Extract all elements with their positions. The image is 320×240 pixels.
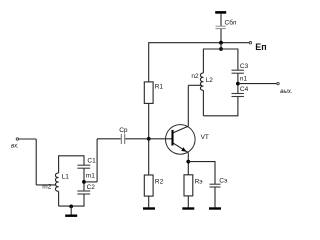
wire tank1 bottom xyxy=(59,205,84,207)
wire input to L1 tap (m2) xyxy=(19,139,57,185)
capacitor C2 xyxy=(77,184,95,194)
node (tank L2 top junction) xyxy=(219,47,223,51)
inductor L2 xyxy=(200,73,213,91)
ground (under Rэ) xyxy=(182,207,194,209)
node (tank1 bottom junction) xyxy=(69,205,73,209)
wire Сбл to Еп rail xyxy=(220,29,222,43)
resistor R1 xyxy=(144,82,163,104)
node (emitter junction) xyxy=(186,160,190,164)
svg-text:R2: R2 xyxy=(155,179,164,186)
output terminal вых. xyxy=(238,82,293,95)
capacitor Сэ xyxy=(210,178,228,187)
node n1 xyxy=(236,75,248,85)
wire rail corner down to R1 xyxy=(148,42,150,82)
svg-text:C2: C2 xyxy=(87,184,96,191)
wire collector up xyxy=(187,85,189,126)
wire C2 to tank1 bottom xyxy=(83,194,85,206)
input terminal вх. xyxy=(11,138,19,150)
resistor R2 xyxy=(144,175,163,196)
svg-text:Сэ: Сэ xyxy=(219,178,228,185)
wire rail to tank top xyxy=(220,43,222,49)
svg-text:n1: n1 xyxy=(240,75,248,82)
wire base node to transistor base xyxy=(149,138,172,140)
ground (top, above Cбл) xyxy=(215,12,226,26)
capacitor C3 xyxy=(232,63,249,73)
svg-text:C3: C3 xyxy=(240,63,249,70)
wire tank2 top xyxy=(203,48,238,50)
power rail Еп xyxy=(149,42,267,52)
svg-text:m1: m1 xyxy=(86,172,95,179)
wire C1 to node m1 xyxy=(83,169,85,191)
node (rail / Сбл junction) xyxy=(219,41,223,45)
wire tank1 right rail top segment xyxy=(83,155,85,165)
node m1 xyxy=(82,172,95,183)
wire collector tap to L2 (n2 tap) xyxy=(188,84,202,86)
wire Rэ to ground xyxy=(187,196,189,208)
ground (under input tank) xyxy=(65,214,77,216)
resistor Rэ xyxy=(184,175,203,196)
wire Сэ to ground xyxy=(214,187,216,207)
wire emitter down xyxy=(187,153,189,175)
svg-text:m2: m2 xyxy=(42,183,51,190)
ground (under Сэ) xyxy=(209,207,221,209)
wire C4 to tank2 bottom xyxy=(237,97,239,117)
wire tank1 left rail lower xyxy=(58,191,60,206)
wire down to Сэ xyxy=(214,161,216,184)
wire tank1 left rail upper xyxy=(58,155,60,173)
wire Ср to base node xyxy=(125,138,149,140)
svg-text:C4: C4 xyxy=(240,86,249,93)
wire R1 to base node xyxy=(148,103,150,175)
wire tank2 left rail upper xyxy=(202,49,204,73)
wire tank2 right rail top segment xyxy=(237,49,239,71)
svg-text:Еп: Еп xyxy=(255,42,266,52)
wire tank1 bottom to ground xyxy=(70,206,72,214)
svg-text:VT: VT xyxy=(201,134,209,141)
transistor VT xyxy=(166,125,209,155)
capacitor Сбл xyxy=(216,19,237,29)
wire m1 to Ср xyxy=(84,139,121,182)
wire R2 to ground xyxy=(148,196,150,207)
svg-text:вых.: вых. xyxy=(280,89,292,95)
capacitor C1 xyxy=(77,158,96,169)
wire tank2 bottom xyxy=(203,115,238,117)
node (base junction) xyxy=(147,137,151,141)
svg-text:R1: R1 xyxy=(155,83,164,90)
svg-text:вх.: вх. xyxy=(11,143,19,149)
svg-text:n2: n2 xyxy=(191,73,199,80)
wire tank1 top xyxy=(59,155,84,157)
capacitor Ср xyxy=(119,127,128,144)
svg-text:C1: C1 xyxy=(87,158,96,165)
ground (under R2) xyxy=(143,207,155,209)
wire C3 to node n1 xyxy=(237,74,239,94)
svg-text:Rэ: Rэ xyxy=(195,179,204,186)
svg-text:Сбл: Сбл xyxy=(225,19,237,27)
svg-text:L1: L1 xyxy=(62,174,70,181)
svg-text:L2: L2 xyxy=(206,77,214,84)
svg-text:Ср: Ср xyxy=(119,127,128,134)
capacitor C4 xyxy=(232,86,249,97)
inductor L1 xyxy=(55,173,69,191)
wire emitter node to Сэ xyxy=(188,161,215,163)
wire tank2 left rail lower xyxy=(202,90,204,115)
